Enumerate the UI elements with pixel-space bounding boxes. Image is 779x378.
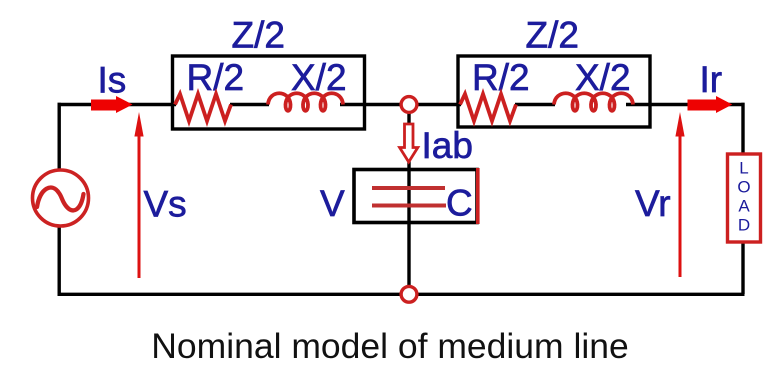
svg-text:D: D: [738, 216, 750, 235]
svg-text:Ir: Ir: [700, 59, 723, 100]
load (red box with LOAD text): [728, 154, 761, 242]
svg-text:Is: Is: [98, 59, 127, 100]
wire: between resistor and coil inside left box: [230, 103, 269, 106]
ac source V1 (circle with sine): [33, 170, 89, 226]
current arrow Iab (hollow red arrow pointing down): [400, 124, 418, 162]
resistor R/2 right (zigzag): [460, 94, 516, 121]
resistor R/2 left (zigzag): [175, 94, 231, 121]
svg-text:Nominal model of medium line: Nominal model of medium line: [151, 326, 628, 366]
wire: top-left horizontal from source corner to resistor R/2 left: [58, 103, 177, 106]
wire: bottom horizontal return conductor: [58, 293, 745, 296]
inductor X/2 right (coil): [554, 93, 633, 111]
impedance box Z/2 right: [458, 56, 650, 127]
svg-text:O: O: [737, 178, 750, 197]
capacitor C (boxed): [354, 168, 478, 224]
inductor X/2 left (coil): [268, 93, 343, 111]
arrow Is (filled red, pointing right): [91, 96, 133, 113]
svg-text:Vs: Vs: [144, 184, 187, 225]
arrow Vs (red, pointing up): [134, 112, 143, 278]
wire: between resistor and coil inside right box: [515, 103, 555, 106]
svg-text:L: L: [739, 159, 748, 178]
wire: from left coil through node A to right resistor: [340, 103, 461, 106]
arrow Ir (filled red, pointing right): [688, 96, 733, 113]
svg-text:C: C: [446, 183, 473, 224]
wire: right vertical from top corner down through LOAD to bottom corner: [741, 103, 744, 294]
svg-text:Vr: Vr: [635, 183, 671, 224]
wire: middle vertical shunt branch from node A through capacitor to bottom node: [407, 106, 410, 294]
svg-text:Z/2: Z/2: [526, 15, 579, 56]
node A (top junction, open circle): [401, 97, 417, 113]
svg-text:Iab: Iab: [422, 125, 473, 166]
impedance box Z/2 left: [173, 56, 365, 129]
node B (bottom junction, open circle): [401, 286, 417, 302]
arrow Vr (red, pointing up): [675, 112, 684, 277]
svg-text:A: A: [738, 197, 750, 216]
svg-text:Z/2: Z/2: [232, 15, 285, 56]
svg-text:V: V: [320, 183, 345, 224]
wire: left vertical from top corner down through source to bottom corner: [58, 103, 61, 294]
wire: from right coil to top-right corner: [626, 103, 745, 106]
